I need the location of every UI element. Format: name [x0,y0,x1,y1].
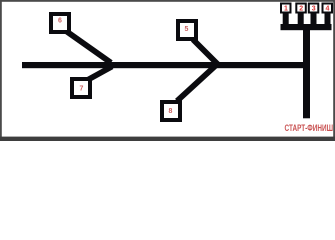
wire comb stub 1 [283,12,289,26]
control square 6 [51,14,69,32]
wire diagonal from square 5 to junction 2 [193,40,219,66]
wire main horizontal line [22,62,310,68]
wire vertical line (start chute) [303,26,310,118]
svg-text:8: 8 [169,108,173,115]
svg-text:5: 5 [185,26,189,33]
wire comb stub 3 [311,12,317,26]
frame left border [0,0,2,141]
svg-text:2: 2 [299,6,303,13]
wire comb horizontal bar [281,24,332,30]
control square 7 [72,79,90,97]
control square 5 [178,21,196,39]
frame bottom border [0,137,335,141]
wire comb stub 4 [325,12,331,26]
comb square 1 [281,4,291,13]
frame top border [0,0,335,2]
svg-text:7: 7 [80,86,84,93]
svg-text:СТАРТ-ФИНИШ: СТАРТ-ФИНИШ [285,123,334,133]
svg-text:3: 3 [312,6,316,13]
comb square 4 [323,4,333,13]
svg-text:1: 1 [284,6,288,13]
comb square 2 [296,4,306,13]
svg-text:4: 4 [325,6,329,13]
svg-text:6: 6 [58,18,62,25]
wire diagonal from square 6 to junction 1 [66,31,111,63]
frame right border [333,0,335,141]
wire diagonal from square 7 to junction 1 [88,67,113,81]
comb square 3 [309,4,319,13]
wire comb stub 2 [298,12,304,26]
control square 8 [162,102,180,120]
wire diagonal from square 8 to junction 2 [177,63,219,102]
